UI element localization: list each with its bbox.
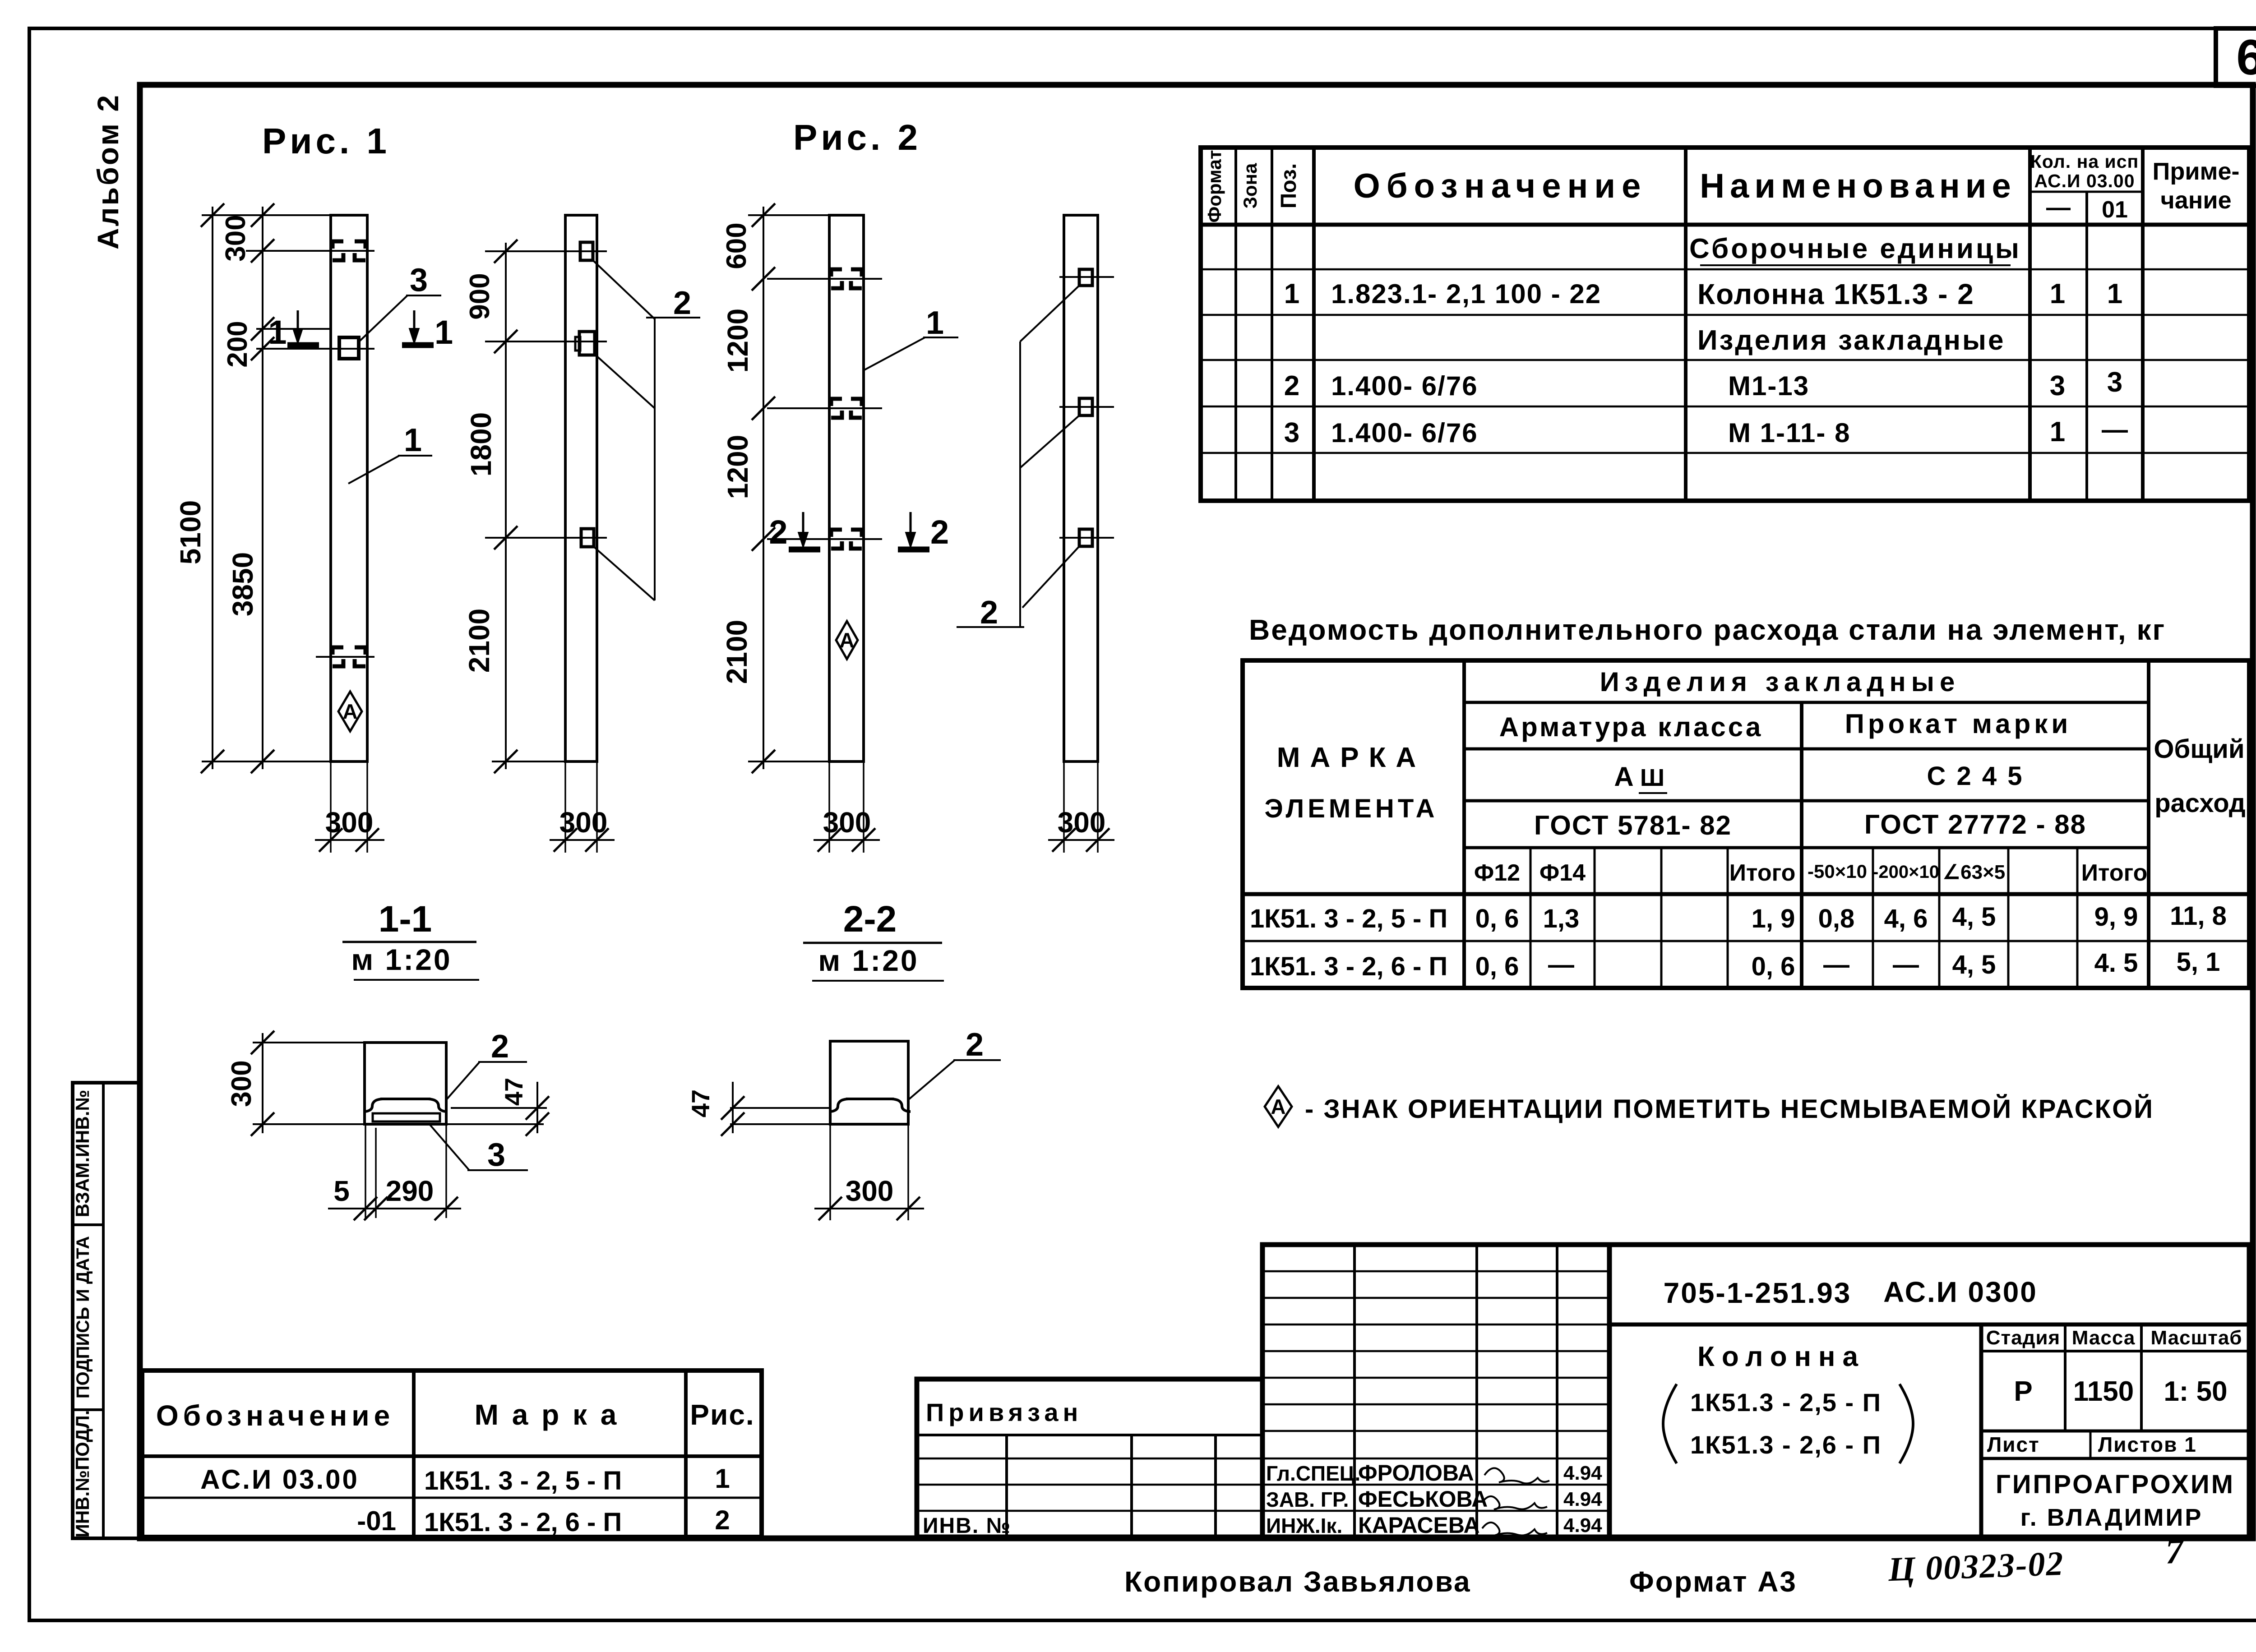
dimension 5100 [212, 207, 213, 769]
bottom dimension 300 fig1 side [564, 761, 566, 853]
section mark 2 left [789, 547, 820, 553]
extension line bottom fig1 side [492, 761, 565, 762]
dimension chain 300/200/3850 [262, 207, 264, 769]
section mark 2 right [898, 547, 929, 553]
svg-text:Листов 1: Листов 1 [2098, 1433, 2197, 1456]
bottom dimension 300 fig1 front [330, 761, 332, 853]
svg-text:4. 5: 4. 5 [2094, 948, 2138, 978]
extension line bottom fig2 [748, 761, 829, 762]
svg-text:1, 9: 1, 9 [1752, 904, 1795, 933]
svg-text:—: — [1823, 950, 1849, 979]
svg-text:47: 47 [686, 1089, 715, 1117]
svg-text:1: 1 [268, 314, 287, 351]
svg-text:1200: 1200 [721, 435, 754, 499]
svg-text:Ш: Ш [1640, 764, 1664, 791]
svg-text:2100: 2100 [721, 620, 753, 684]
embed mark M1-13 top [580, 242, 593, 260]
svg-text:Кол. на исп: Кол. на исп [2030, 151, 2139, 172]
dimension 300 section 2-2 [829, 1124, 831, 1220]
column 1K51.3 side view (fig.2) [1064, 215, 1098, 761]
embed mark lower [1079, 529, 1092, 546]
svg-text:1К51. 3 - 2, 6 - П: 1К51. 3 - 2, 6 - П [1250, 952, 1447, 981]
dimension chain 900/1800/2100 [505, 243, 507, 769]
embedded channel pos.2 in section 2-2 [829, 1099, 911, 1112]
svg-text:1.823.1- 2,1 100 - 22: 1.823.1- 2,1 100 - 22 [1331, 279, 1601, 309]
svg-text:ВЗАМ.ИНВ.№: ВЗАМ.ИНВ.№ [72, 1090, 93, 1217]
svg-text:Копировал Завьялова: Копировал Завьялова [1124, 1565, 1471, 1598]
parts list table [1201, 148, 2249, 501]
embed marks pair 600 level [831, 269, 842, 288]
svg-text:1К51. 3 - 2, 5 - П: 1К51. 3 - 2, 5 - П [424, 1466, 622, 1495]
svg-text:г. ВЛАДИМИР: г. ВЛАДИМИР [2020, 1504, 2203, 1531]
embed marks pair 1800 level [831, 399, 842, 418]
svg-text:Ведомость дополнительного расх: Ведомость дополнительного расхода стали … [1249, 614, 2166, 646]
column 1K51.3 side view (fig.1) [565, 215, 597, 761]
svg-text:2: 2 [715, 1505, 730, 1535]
extension line top fig2 [748, 214, 829, 216]
svg-text:2: 2 [966, 1027, 984, 1063]
svg-text:0, 6: 0, 6 [1475, 952, 1519, 981]
svg-text:Ф12: Ф12 [1474, 860, 1520, 886]
svg-text:—: — [1893, 950, 1919, 979]
svg-text:ПОДПИСЬ И ДАТА: ПОДПИСЬ И ДАТА [73, 1236, 93, 1398]
bottom-left table oboznachenie/marka/ris [142, 1371, 762, 1537]
svg-text:4.94: 4.94 [1563, 1462, 1602, 1484]
svg-text:1К51. 3 - 2, 5 - П: 1К51. 3 - 2, 5 - П [1250, 904, 1447, 933]
svg-text:ЗАВ. ГР.: ЗАВ. ГР. [1266, 1488, 1349, 1511]
svg-text:Ц 00323-02: Ц 00323-02 [1887, 1545, 2065, 1589]
svg-text:4, 5: 4, 5 [1952, 950, 1996, 979]
svg-text:-01: -01 [357, 1506, 396, 1536]
orientation mark diamond A fig2 [836, 621, 858, 659]
svg-text:Обозначение: Обозначение [156, 1399, 394, 1432]
svg-text:Приме-: Приме- [2153, 158, 2240, 185]
svg-text:Итого: Итого [1729, 860, 1796, 886]
svg-text:Изделия закладные: Изделия закладные [1600, 667, 1960, 697]
svg-text:1.400- 6/76: 1.400- 6/76 [1331, 371, 1478, 401]
embed mark M1-13 lower [581, 529, 594, 547]
svg-text:300: 300 [325, 806, 374, 839]
svg-text:Колонна: Колонна [1697, 1341, 1865, 1372]
svg-text:м 1:20: м 1:20 [818, 944, 919, 977]
svg-text:3: 3 [410, 262, 428, 298]
svg-text:Рис. 2: Рис. 2 [793, 117, 921, 157]
svg-text:ИНВ.№ПОДЛ.: ИНВ.№ПОДЛ. [72, 1410, 93, 1538]
svg-text:9, 9: 9, 9 [2094, 902, 2138, 932]
svg-text:АС.И 0300: АС.И 0300 [1883, 1276, 2038, 1308]
svg-text:900: 900 [464, 273, 495, 319]
svg-text:А: А [1271, 1095, 1285, 1118]
svg-text:Итого: Итого [2081, 860, 2148, 886]
svg-text:3: 3 [1284, 417, 1299, 448]
svg-text:2: 2 [1284, 370, 1299, 401]
svg-text:3: 3 [2107, 367, 2122, 398]
embed marks pair top [333, 241, 343, 260]
handwritten inventory number [1887, 1531, 2186, 1588]
svg-text:200: 200 [222, 321, 253, 367]
svg-text:0,8: 0,8 [1818, 904, 1855, 933]
svg-text:чание: чание [2160, 187, 2231, 214]
svg-text:01: 01 [2102, 197, 2128, 223]
svg-text:1: 1 [2107, 278, 2122, 309]
leader label 3 [359, 295, 407, 342]
svg-text:Формат А3: Формат А3 [1629, 1565, 1797, 1598]
svg-text:ФЕСЬКОВА: ФЕСЬКОВА [1358, 1486, 1488, 1512]
title block right part [1609, 1245, 2249, 1537]
leader label 1 [348, 456, 399, 484]
svg-text:Масса: Масса [2072, 1327, 2136, 1349]
svg-text:АС.И 03.00: АС.И 03.00 [200, 1464, 359, 1495]
svg-text:МАРКА: МАРКА [1277, 742, 1426, 773]
svg-text:м 1:20: м 1:20 [351, 943, 452, 976]
svg-text:3: 3 [2050, 370, 2065, 401]
page number box [2216, 28, 2256, 86]
svg-text:2: 2 [930, 513, 949, 551]
svg-text:Сборочные единицы: Сборочные единицы [1689, 233, 2021, 264]
svg-text:2: 2 [673, 285, 691, 321]
svg-text:1-1: 1-1 [379, 899, 432, 940]
svg-text:Зона: Зона [1239, 163, 1261, 208]
embed marks pair middle [333, 647, 343, 666]
section mark 1 left [287, 342, 319, 348]
svg-text:С 2 4 5: С 2 4 5 [1927, 761, 2024, 791]
embed mark M1-11-8 with flange [579, 332, 595, 355]
svg-text:Поз.: Поз. [1277, 163, 1301, 208]
dimension 47 section 1-1 [451, 1107, 547, 1109]
svg-text:2100: 2100 [463, 609, 495, 673]
svg-text:Рис. 1: Рис. 1 [262, 121, 390, 161]
svg-text:∠63×5: ∠63×5 [1943, 861, 2006, 883]
svg-text:Рис.: Рис. [690, 1398, 754, 1431]
svg-text:290: 290 [386, 1175, 434, 1207]
svg-text:ГИПРОАГРОХИМ: ГИПРОАГРОХИМ [1996, 1470, 2235, 1499]
svg-text:6: 6 [2236, 30, 2256, 85]
svg-text:300: 300 [1058, 806, 1106, 839]
handwritten signatures [1484, 1468, 1549, 1483]
svg-text:300: 300 [226, 1060, 257, 1107]
svg-text:ФРОЛОВА: ФРОЛОВА [1358, 1460, 1474, 1486]
svg-text:А: А [1614, 761, 1634, 792]
svg-text:А: А [342, 700, 357, 723]
svg-text:1: 1 [435, 314, 453, 351]
svg-text:Общий: Общий [2154, 734, 2244, 764]
base line extension section 1-1 [253, 1123, 544, 1125]
leader label 2 (fig2 side) [1020, 286, 1079, 341]
svg-text:2: 2 [491, 1029, 509, 1065]
svg-text:ИНВ. №: ИНВ. № [923, 1514, 1011, 1538]
svg-text:0, 6: 0, 6 [1475, 904, 1519, 933]
dimension 47 section 2-2 [730, 1107, 830, 1109]
svg-text:Формат: Формат [1204, 150, 1225, 222]
svg-text:3850: 3850 [227, 552, 259, 616]
svg-text:Обозначение: Обозначение [1354, 167, 1647, 205]
svg-text:5: 5 [333, 1175, 350, 1207]
svg-text:ИНЖ.Iк.: ИНЖ.Iк. [1266, 1514, 1342, 1537]
column 1K51.3 front view (fig.2) [829, 215, 864, 761]
svg-text:М 1-11- 8: М 1-11- 8 [1728, 418, 1850, 448]
svg-text:300: 300 [220, 215, 251, 261]
dimensions 5 and 290 section 1-1 [365, 1124, 366, 1218]
orientation mark diamond A fig1 [338, 692, 362, 731]
vedomost table [1243, 660, 2249, 988]
left sidebar boxes [73, 1083, 140, 1538]
svg-text:4.94: 4.94 [1563, 1488, 1602, 1510]
svg-text:2: 2 [980, 595, 998, 631]
svg-text:1: 1 [715, 1463, 730, 1494]
svg-text:5100: 5100 [174, 500, 207, 564]
svg-text:1К51. 3 - 2, 6 - П: 1К51. 3 - 2, 6 - П [424, 1508, 622, 1537]
extension line top fig1 [202, 214, 331, 216]
svg-text:Арматура класса: Арматура класса [1499, 712, 1763, 742]
svg-text:Изделия закладные: Изделия закладные [1697, 325, 2006, 356]
leader label 2 section 2-2 [908, 1060, 955, 1100]
svg-text:1: 50: 1: 50 [2164, 1376, 2227, 1407]
svg-text:Колонна 1К51.3 - 2: Колонна 1К51.3 - 2 [1697, 278, 1974, 310]
svg-text:ГОСТ 27772 - 88: ГОСТ 27772 - 88 [1864, 809, 2086, 840]
embedded plate pos.3 in section 1-1 [373, 1113, 440, 1121]
svg-text:ЭЛЕМЕНТА: ЭЛЕМЕНТА [1265, 794, 1438, 823]
svg-text:1: 1 [404, 422, 422, 458]
embed item M1-11-8 (pos.3) [339, 337, 359, 359]
svg-text:4.94: 4.94 [1563, 1514, 1602, 1537]
svg-text:7: 7 [2165, 1531, 2186, 1571]
svg-text:М1-13: М1-13 [1728, 371, 1809, 401]
svg-text:Ф14: Ф14 [1539, 860, 1586, 886]
svg-text:КАРАСЕВА: КАРАСЕВА [1358, 1513, 1480, 1538]
privyazan block [917, 1379, 1262, 1537]
svg-text:- ЗНАК ОРИЕНТАЦИИ ПОМЕТИТЬ НЕС: - ЗНАК ОРИЕНТАЦИИ ПОМЕТИТЬ НЕСМЫВАЕМОЙ К… [1305, 1094, 2154, 1124]
svg-text:0, 6: 0, 6 [1752, 952, 1795, 981]
svg-text:705-1-251.93: 705-1-251.93 [1664, 1277, 1852, 1309]
bottom dimension 300 fig2 side [1063, 761, 1065, 853]
svg-text:ГОСТ 5781- 82: ГОСТ 5781- 82 [1534, 810, 1732, 840]
svg-text:600: 600 [721, 222, 752, 269]
svg-text:4, 5: 4, 5 [1952, 902, 1996, 932]
leader label 2 section 1-1 [446, 1062, 480, 1100]
dimension chain 600/1200/1200/2100 [763, 207, 764, 769]
dimension 300 section 1-1 [262, 1033, 264, 1133]
svg-text:—: — [2102, 415, 2128, 444]
svg-text:А: А [839, 628, 854, 652]
embed marks pair 3000 level [831, 530, 842, 549]
svg-text:-50×10: -50×10 [1808, 861, 1867, 882]
svg-text:Привязан: Привязан [926, 1398, 1082, 1426]
svg-text:Р: Р [2014, 1376, 2032, 1407]
svg-text:Гл.СПЕЦ.: Гл.СПЕЦ. [1266, 1462, 1360, 1485]
svg-text:1: 1 [1284, 278, 1299, 309]
svg-text:4, 6: 4, 6 [1884, 904, 1928, 933]
title block staff grid [1262, 1245, 1609, 1537]
svg-text:300: 300 [559, 806, 608, 839]
svg-text:2-2: 2-2 [843, 899, 897, 940]
svg-text:2: 2 [769, 513, 787, 551]
svg-text:300: 300 [846, 1175, 894, 1207]
svg-text:Наименование: Наименование [1700, 167, 2016, 205]
svg-text:расход: расход [2154, 789, 2245, 818]
section 2-2 column outline 300x300 [830, 1041, 908, 1124]
svg-text:1800: 1800 [465, 412, 497, 476]
svg-text:-200×10: -200×10 [1872, 862, 1939, 882]
embed mark middle [1079, 398, 1092, 415]
extension line bottom fig1 [202, 761, 331, 762]
svg-text:—: — [1548, 950, 1574, 979]
svg-text:1150: 1150 [2073, 1376, 2134, 1407]
svg-text:—: — [2046, 194, 2071, 221]
svg-text:11, 8: 11, 8 [2170, 901, 2227, 931]
svg-text:1200: 1200 [721, 309, 754, 373]
svg-text:3: 3 [487, 1137, 505, 1173]
svg-text:1К51.3 - 2,5 - П: 1К51.3 - 2,5 - П [1690, 1388, 1882, 1417]
svg-text:Масштаб: Масштаб [2150, 1327, 2242, 1349]
section 1-1 column outline 300x300 [365, 1043, 446, 1124]
svg-text:Стадия: Стадия [1986, 1327, 2060, 1349]
section mark 1 right [402, 342, 434, 348]
svg-text:1,3: 1,3 [1543, 904, 1580, 933]
svg-text:М а р к а: М а р к а [475, 1398, 619, 1431]
bottom dimension 300 fig2 front [828, 761, 830, 853]
svg-text:1: 1 [2050, 416, 2065, 448]
svg-text:47: 47 [499, 1078, 528, 1106]
svg-text:1.400- 6/76: 1.400- 6/76 [1331, 418, 1478, 448]
svg-text:Альбом 2: Альбом 2 [91, 93, 125, 249]
svg-text:300: 300 [823, 806, 871, 839]
svg-text:Прокат марки: Прокат марки [1845, 709, 2071, 739]
svg-text:АС.И 03.00: АС.И 03.00 [2034, 171, 2135, 191]
embedded channel pos.2 in section 1-1 [364, 1099, 447, 1112]
orientation note diamond A [1265, 1086, 1292, 1127]
svg-text:5, 1: 5, 1 [2177, 947, 2220, 977]
svg-text:1К51.3 - 2,6 - П: 1К51.3 - 2,6 - П [1690, 1431, 1882, 1459]
column 1K51.3 front view (fig.1) [331, 215, 367, 761]
svg-text:1: 1 [2050, 278, 2065, 309]
leader label 1 (fig2) [863, 337, 925, 371]
leader label 3 section 1-1 [429, 1123, 469, 1170]
embed mark top [1079, 269, 1092, 286]
svg-text:Лист: Лист [1987, 1433, 2040, 1456]
leader label 2 (fig1 side) [593, 260, 655, 319]
svg-text:1: 1 [926, 305, 944, 341]
